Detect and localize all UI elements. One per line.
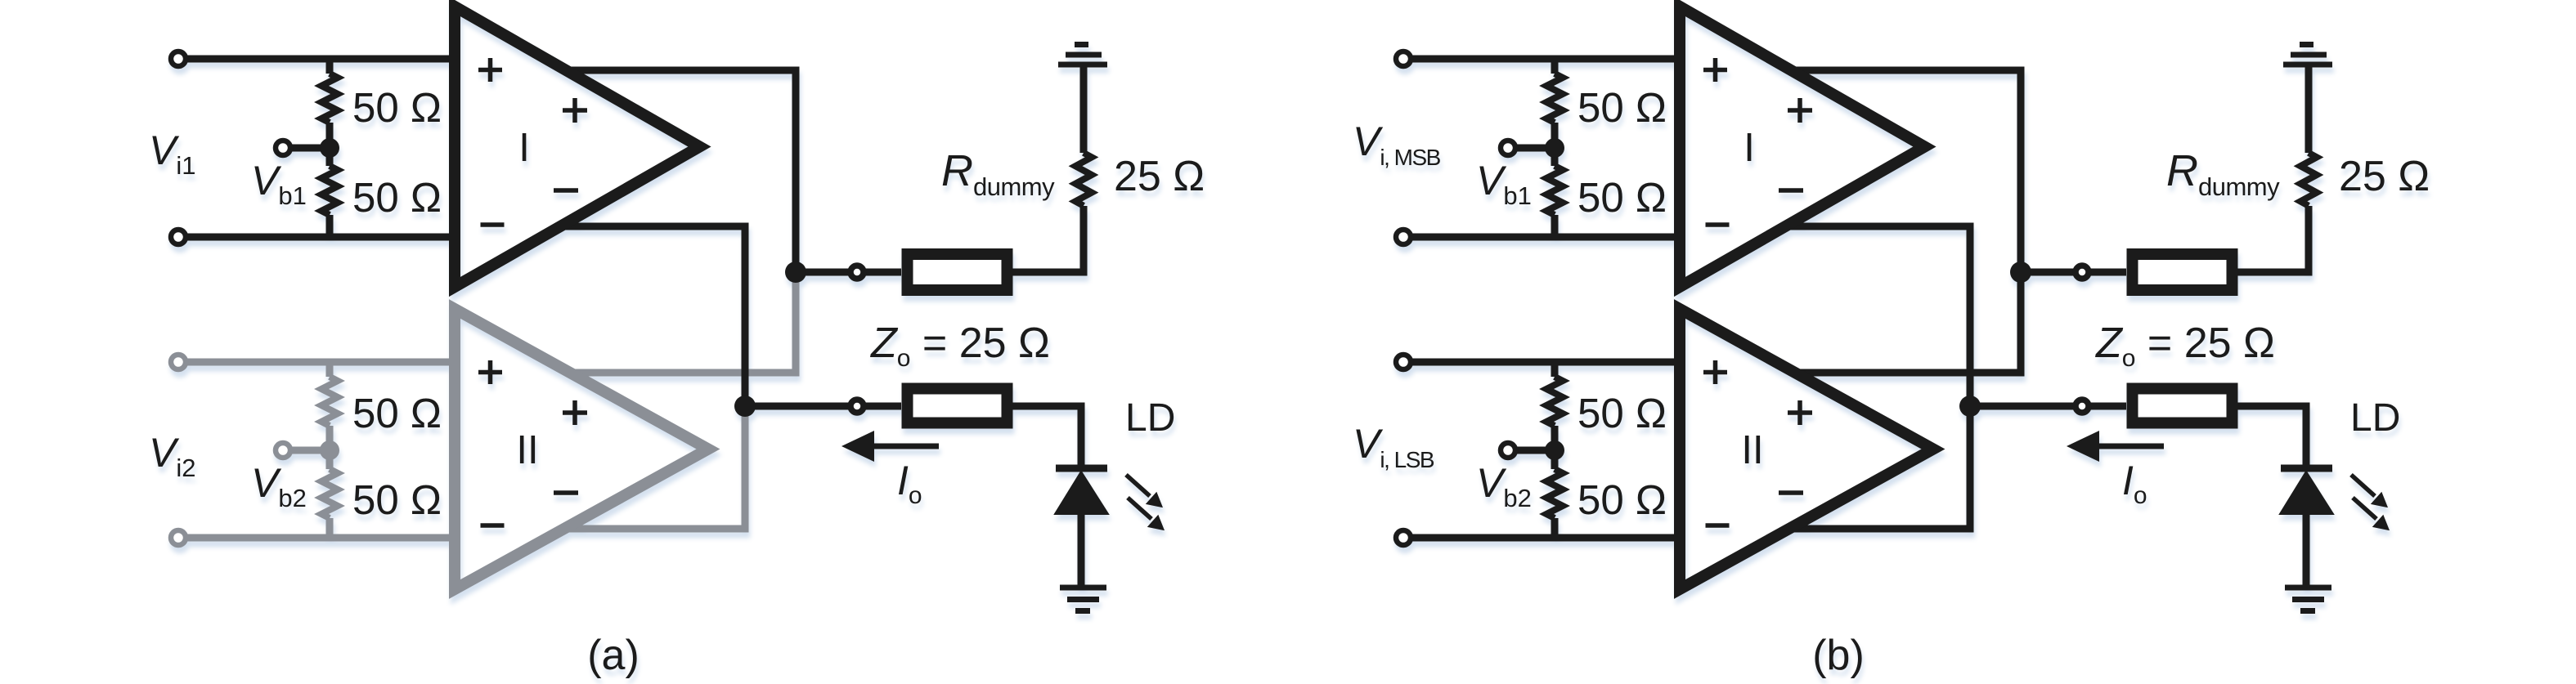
wire Vb2 stub (b): [1508, 447, 1555, 454]
port lower output (a): [850, 400, 864, 413]
wire II - output to lower node (a): [559, 406, 745, 529]
svg-text:Zo = 25 Ω: Zo = 25 Ω: [869, 320, 1050, 372]
node upper output (b): [2010, 262, 2031, 283]
wire line to LD (b): [2237, 406, 2306, 468]
terminal I + input (a): [171, 51, 186, 66]
svg-text:50 Ω: 50 Ω: [1577, 84, 1667, 131]
wire II + output to upper node (b): [1791, 272, 2021, 373]
wire LD to ground (a): [1078, 514, 1085, 588]
light emission arrow 2 (a): [1128, 498, 1163, 530]
laser diode LD anode triangle (a): [1055, 472, 1108, 514]
transmission line to LD (a): [908, 389, 1008, 423]
laser diode LD cathode bar (a): [1056, 465, 1107, 472]
svg-text:50 Ω: 50 Ω: [352, 476, 442, 523]
op-amp I + output sign (a): [563, 98, 587, 123]
svg-text:Zo = 25 Ω: Zo = 25 Ω: [2094, 320, 2275, 372]
op-amp I (a): [455, 7, 700, 287]
op-amp I + input sign (b): [1703, 58, 1727, 82]
svg-text:25 Ω: 25 Ω: [2339, 153, 2430, 200]
transmission line to R_dummy (a): [908, 254, 1008, 290]
wire line to LD (a): [1012, 406, 1081, 468]
svg-text:II: II: [1741, 428, 1763, 472]
op-amp I - output sign (a): [554, 188, 578, 193]
wire Vb1 stub (b): [1508, 145, 1555, 152]
terminal I + input (b): [1396, 51, 1411, 66]
wire upper node to line (b): [2021, 269, 2126, 276]
svg-text:Vb1: Vb1: [251, 158, 307, 210]
node lower output (a): [734, 396, 756, 417]
svg-text:I: I: [1744, 126, 1755, 170]
wire R_dummy to ground (a): [1080, 65, 1088, 153]
resistor 50-ohm upper of I (a): [321, 74, 338, 123]
svg-text:LD: LD: [2350, 396, 2400, 440]
wire Vb1 stub (a): [283, 145, 330, 152]
resistor 50-ohm lower of II (b): [1546, 469, 1563, 518]
svg-text:50 Ω: 50 Ω: [352, 174, 442, 221]
terminal II + input (b): [1396, 355, 1411, 369]
svg-text:Vb1: Vb1: [1476, 158, 1532, 210]
light emission arrow 1 (a): [1126, 475, 1161, 507]
wire resistor column I (b): [1551, 59, 1559, 237]
port upper output (a): [850, 266, 864, 279]
op-amp II + output sign (b): [1788, 400, 1812, 425]
junction dot Vb1 node (a): [320, 138, 339, 158]
wire line to R_dummy (a): [1012, 206, 1084, 272]
svg-text:LD: LD: [1125, 396, 1175, 440]
wire line to R_dummy (b): [2237, 206, 2309, 272]
wire I + output to upper node (b): [1791, 70, 2021, 272]
wire upper node to line (a): [796, 269, 901, 276]
resistor 50-ohm lower of II (a): [321, 469, 338, 518]
resistor 50-ohm lower of I (a): [321, 166, 338, 215]
port upper output (b): [2076, 266, 2089, 279]
junction dot Vb2 node (a): [320, 440, 339, 460]
transmission line to LD (b): [2133, 389, 2233, 423]
arrow Io (a): [841, 431, 939, 462]
resistor 50-ohm upper of I (b): [1546, 74, 1563, 123]
resistor 50-ohm lower of I (b): [1546, 166, 1563, 215]
wire I - input (a): [178, 234, 455, 241]
wire resistor column II (b): [1551, 362, 1559, 538]
svg-text:Vi1: Vi1: [149, 127, 196, 180]
wire II - input (a): [178, 534, 455, 542]
op-amp II + output sign (a): [563, 400, 587, 425]
laser diode LD cathode bar (b): [2281, 465, 2332, 472]
terminal II - input (b): [1396, 530, 1411, 545]
terminal II - input (a): [171, 530, 186, 545]
node lower output (b): [1959, 396, 1981, 417]
wire LD to ground (b): [2303, 514, 2310, 588]
wire resistor column II (a): [326, 362, 334, 538]
resistor R_dummy 25-ohm (a): [1075, 153, 1092, 206]
terminal Vb1 (a): [276, 141, 290, 155]
wire II + input (b): [1403, 359, 1680, 366]
op-amp II + input sign (b): [1703, 360, 1727, 384]
wire II + input (a): [178, 359, 455, 366]
op-amp II - input sign (b): [1706, 523, 1730, 528]
svg-text:Io: Io: [897, 458, 922, 509]
op-amp I - input sign (a): [481, 222, 505, 227]
terminal I - input (a): [171, 230, 186, 244]
wire resistor column I (a): [326, 59, 334, 237]
svg-text:Rdummy: Rdummy: [941, 146, 1055, 201]
svg-text:25 Ω: 25 Ω: [1114, 153, 1205, 200]
svg-text:50 Ω: 50 Ω: [1577, 476, 1667, 523]
resistor 50-ohm upper of II (b): [1546, 377, 1563, 426]
svg-text:50 Ω: 50 Ω: [352, 390, 442, 436]
op-amp I + output sign (b): [1788, 98, 1812, 123]
svg-text:I: I: [518, 126, 530, 170]
wire I - output to lower node (a): [559, 226, 745, 406]
wire II + output to upper node (a): [566, 272, 796, 373]
op-amp I - output sign (b): [1779, 188, 1803, 193]
op-amp II - input sign (a): [481, 523, 505, 528]
wire Vb2 stub (a): [283, 447, 330, 454]
wire R_dummy to ground (b): [2305, 65, 2313, 153]
svg-text:(b): (b): [1812, 632, 1865, 679]
laser diode LD anode triangle (b): [2280, 472, 2333, 514]
arrow Io (b): [2067, 431, 2164, 462]
port lower output (b): [2076, 400, 2089, 413]
svg-text:Vb2: Vb2: [251, 460, 307, 512]
junction dot Vb2 node (b): [1545, 440, 1564, 460]
wire I + output to upper node (a): [566, 70, 796, 272]
wire I + input (b): [1403, 56, 1680, 63]
wire lower node to line (a): [745, 403, 901, 410]
svg-text:Rdummy: Rdummy: [2166, 146, 2280, 201]
svg-text:Vi2: Vi2: [149, 430, 196, 482]
junction dot Vb1 node (b): [1545, 138, 1564, 158]
ground bottom (b): [2285, 588, 2331, 611]
wire II - input (b): [1403, 534, 1680, 542]
terminal II + input (a): [171, 355, 186, 369]
op-amp I - input sign (b): [1706, 222, 1730, 227]
svg-text:II: II: [516, 428, 538, 472]
op-amp II (b): [1680, 309, 1933, 589]
op-amp II (a): [455, 309, 708, 589]
op-amp I + input sign (a): [478, 58, 502, 82]
wire II - output to lower node (b): [1784, 406, 1970, 529]
op-amp II - output sign (b): [1779, 490, 1803, 495]
light emission arrow 2 (b): [2353, 498, 2388, 530]
terminal Vb1 (b): [1501, 141, 1515, 155]
wire I - output to lower node (b): [1784, 226, 1970, 406]
terminal Vb2 (b): [1501, 443, 1515, 458]
terminal I - input (b): [1396, 230, 1411, 244]
wire I - input (b): [1403, 234, 1680, 241]
svg-text:Vi, MSB: Vi, MSB: [1353, 118, 1441, 170]
svg-text:(a): (a): [587, 632, 640, 679]
op-amp II + input sign (a): [478, 360, 502, 384]
terminal Vb2 (a): [276, 443, 290, 458]
wire I + input (a): [178, 56, 455, 63]
svg-text:Vb2: Vb2: [1476, 460, 1532, 512]
wire lower node to line (b): [1970, 403, 2126, 410]
svg-text:50 Ω: 50 Ω: [1577, 174, 1667, 221]
transmission line to R_dummy (b): [2133, 254, 2233, 290]
svg-text:Io: Io: [2122, 458, 2147, 509]
op-amp I (b): [1680, 7, 1925, 287]
ground top inverted (a): [1058, 45, 1107, 65]
ground top inverted (b): [2283, 45, 2332, 65]
resistor R_dummy 25-ohm (b): [2300, 153, 2317, 206]
svg-text:50 Ω: 50 Ω: [1577, 390, 1667, 436]
light emission arrow 1 (b): [2351, 475, 2386, 507]
node upper output (a): [785, 262, 806, 283]
svg-text:Vi, LSB: Vi, LSB: [1353, 421, 1434, 472]
svg-text:50 Ω: 50 Ω: [352, 84, 442, 131]
op-amp II - output sign (a): [554, 490, 578, 495]
resistor 50-ohm upper of II (a): [321, 377, 338, 426]
ground bottom (a): [1060, 588, 1106, 611]
